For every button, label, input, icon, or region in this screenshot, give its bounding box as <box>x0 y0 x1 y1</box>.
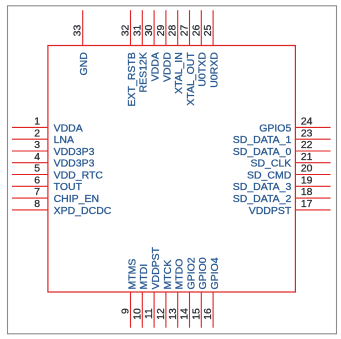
svg-text:20: 20 <box>301 164 313 175</box>
svg-text:RES12K: RES12K <box>138 52 150 92</box>
pin 26 (U0TXD) top side <box>191 10 208 86</box>
svg-text:XPD_DCDC: XPD_DCDC <box>54 205 112 217</box>
svg-text:25: 25 <box>203 25 214 37</box>
pin 5 (VDD_RTC) left side <box>12 164 103 182</box>
pin 32 (EXT_RSTB) top side <box>121 10 138 106</box>
svg-text:VDDPST: VDDPST <box>150 246 162 289</box>
svg-text:GPIO2: GPIO2 <box>185 257 197 289</box>
svg-text:14: 14 <box>180 308 191 320</box>
pin 25 (U0RXD) top side <box>203 10 220 88</box>
pin 21 (SD_CLK) right side <box>250 152 330 170</box>
svg-text:4: 4 <box>34 152 40 163</box>
svg-text:VDD3P3: VDD3P3 <box>54 146 95 158</box>
svg-text:5: 5 <box>34 164 40 175</box>
pin 23 (SD_DATA_1) right side <box>233 128 331 146</box>
svg-text:VDDA: VDDA <box>54 122 83 134</box>
pin 6 (TOUT) left side <box>12 175 83 193</box>
pin 32 lead wire <box>130 10 132 45</box>
pin 19 (SD_DATA_3) right side <box>233 175 331 193</box>
pin 23 lead wire <box>295 138 330 140</box>
svg-text:VDDD: VDDD <box>161 52 173 82</box>
svg-text:21: 21 <box>301 152 313 163</box>
svg-text:19: 19 <box>301 175 313 186</box>
pin 22 (SD_DATA_0) right side <box>233 140 331 158</box>
pin 27 (XTAL_OUT) top side <box>180 10 197 105</box>
pin 20 lead wire <box>295 174 330 176</box>
svg-text:TOUT: TOUT <box>54 181 83 193</box>
pin 5 lead wire <box>12 174 48 176</box>
svg-text:12: 12 <box>156 308 167 320</box>
pin 1 (VDDA) left side <box>12 117 83 135</box>
pin 30 (VDDA) top side <box>144 10 161 81</box>
pin 8 lead wire <box>12 209 48 211</box>
pin 30 lead wire <box>153 10 155 45</box>
svg-text:28: 28 <box>168 25 179 37</box>
pin 15 lead wire <box>200 292 202 328</box>
pin 14 (GPIO2) bottom side <box>180 257 198 327</box>
pin 12 lead wire <box>165 292 167 328</box>
pin 28 (XTAL_IN) top side <box>168 10 185 94</box>
pin 4 lead wire <box>12 162 48 164</box>
svg-text:16: 16 <box>203 308 214 320</box>
svg-text:32: 32 <box>121 25 132 37</box>
pin 15 (GPIO0) bottom side <box>191 257 209 327</box>
svg-text:SD_CMD: SD_CMD <box>247 169 292 181</box>
svg-text:7: 7 <box>34 187 40 198</box>
pin 8 (XPD_DCDC) left side <box>12 199 112 217</box>
pin 9 (MTMS) bottom side <box>121 259 139 328</box>
pin 28 lead wire <box>177 10 179 45</box>
svg-text:10: 10 <box>132 308 143 320</box>
svg-text:11: 11 <box>144 308 155 319</box>
pin 1 lead wire <box>12 126 48 128</box>
svg-text:22: 22 <box>301 140 313 151</box>
pin 11 (VDDPST) bottom side <box>144 246 162 327</box>
svg-text:3: 3 <box>34 140 40 151</box>
svg-text:8: 8 <box>34 199 40 210</box>
svg-text:VDD_RTC: VDD_RTC <box>54 169 104 181</box>
pin 26 lead wire <box>200 10 202 45</box>
svg-text:GND: GND <box>78 52 90 76</box>
svg-text:SD_DATA_1: SD_DATA_1 <box>233 134 292 146</box>
pin 33 lead wire <box>82 10 84 45</box>
pin 33 (GND pad) top side <box>73 10 90 75</box>
pin 2 (LNA) left side <box>12 128 74 146</box>
svg-text:CHIP_EN: CHIP_EN <box>54 193 100 205</box>
svg-text:18: 18 <box>301 187 313 198</box>
IC body U1 (ESP8266 QFN-33 package outline) <box>48 46 296 293</box>
pin 3 lead wire <box>12 150 48 152</box>
pin 11 lead wire <box>153 292 155 328</box>
pin 18 (SD_DATA_2) right side <box>233 187 331 205</box>
pin 17 (VDDPST) right side <box>249 199 331 217</box>
pin 7 (CHIP_EN) left side <box>12 187 99 205</box>
pin 29 (VDDD) top side <box>156 10 173 82</box>
svg-text:33: 33 <box>73 25 84 37</box>
svg-text:XTAL_IN: XTAL_IN <box>173 52 185 94</box>
pin 16 lead wire <box>212 292 214 328</box>
pin 17 lead wire <box>295 209 330 211</box>
pin 20 (SD_CMD) right side <box>247 164 331 182</box>
pin 10 lead wire <box>141 292 143 328</box>
pin 22 lead wire <box>295 150 330 152</box>
svg-text:MTDI: MTDI <box>138 264 150 290</box>
svg-text:SD_DATA_0: SD_DATA_0 <box>233 146 292 158</box>
pin 3 (VDD3P3) left side <box>12 140 95 158</box>
pin 31 lead wire <box>141 10 143 45</box>
svg-text:GPIO4: GPIO4 <box>209 257 221 289</box>
pin 9 lead wire <box>130 292 132 328</box>
svg-text:23: 23 <box>301 128 313 139</box>
pin 24 lead wire <box>295 126 330 128</box>
svg-text:U0TXD: U0TXD <box>197 52 209 87</box>
svg-text:GPIO5: GPIO5 <box>259 122 291 134</box>
svg-text:VDD3P3: VDD3P3 <box>54 158 95 170</box>
pin 13 lead wire <box>177 292 179 328</box>
svg-text:27: 27 <box>180 25 191 37</box>
svg-text:VDDA: VDDA <box>150 52 162 81</box>
pin 19 lead wire <box>295 185 330 187</box>
svg-text:17: 17 <box>301 199 313 210</box>
svg-text:15: 15 <box>191 308 202 320</box>
pin 29 lead wire <box>165 10 167 45</box>
pin 7 lead wire <box>12 197 48 199</box>
svg-text:VDDPST: VDDPST <box>249 205 292 217</box>
svg-text:26: 26 <box>191 25 202 37</box>
pin 24 (GPIO5) right side <box>259 117 330 135</box>
svg-text:MTMS: MTMS <box>126 259 138 290</box>
svg-text:SD_DATA_2: SD_DATA_2 <box>233 193 292 205</box>
svg-text:SD_DATA_3: SD_DATA_3 <box>233 181 292 193</box>
svg-text:EXT_RSTB: EXT_RSTB <box>126 52 138 106</box>
svg-text:LNA: LNA <box>54 134 74 146</box>
svg-text:MTCK: MTCK <box>162 260 174 290</box>
svg-text:U0RXD: U0RXD <box>209 52 221 88</box>
svg-text:XTAL_OUT: XTAL_OUT <box>185 52 197 106</box>
svg-text:6: 6 <box>34 175 40 186</box>
pin 2 lead wire <box>12 138 48 140</box>
svg-text:1: 1 <box>34 117 40 128</box>
svg-text:29: 29 <box>156 25 167 37</box>
pin 6 lead wire <box>12 185 48 187</box>
pin 16 (GPIO4) bottom side <box>203 257 221 327</box>
svg-text:GPIO0: GPIO0 <box>197 257 209 289</box>
svg-text:9: 9 <box>121 308 132 314</box>
pin 4 (VDD3P3) left side <box>12 152 95 170</box>
pin 18 lead wire <box>295 197 330 199</box>
svg-text:31: 31 <box>132 25 143 37</box>
pin 31 (RES12K) top side <box>132 10 149 92</box>
svg-text:SD_CLK: SD_CLK <box>250 158 291 170</box>
svg-text:24: 24 <box>301 117 313 128</box>
svg-text:2: 2 <box>34 128 40 139</box>
pin 27 lead wire <box>189 10 191 45</box>
pin 13 (MTDO) bottom side <box>168 259 186 328</box>
pin 25 lead wire <box>212 10 214 45</box>
svg-text:13: 13 <box>168 308 179 320</box>
pin 10 (MTDI) bottom side <box>132 264 150 328</box>
pin 21 lead wire <box>295 162 330 164</box>
svg-text:MTDO: MTDO <box>174 259 186 290</box>
pin 14 lead wire <box>189 292 191 328</box>
pin 12 (MTCK) bottom side <box>156 260 174 328</box>
svg-text:30: 30 <box>144 25 155 37</box>
